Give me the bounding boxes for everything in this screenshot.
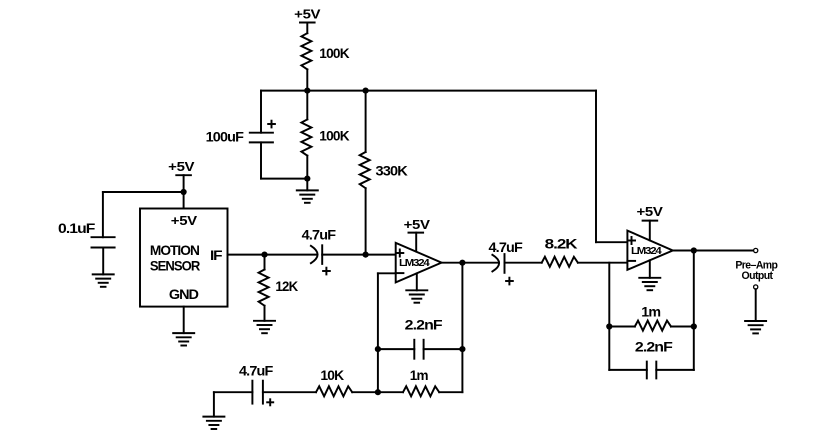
node junction rail/100K bbox=[304, 88, 310, 94]
node junction 1m left bbox=[606, 323, 612, 329]
node junction +5V/sensor/0.1uF bbox=[181, 189, 187, 195]
ground (op-amp2) bbox=[639, 260, 660, 290]
node junction 330K/op-amp1 input bbox=[363, 252, 369, 258]
node junction rail/330K bbox=[363, 88, 369, 94]
ground (output terminal) bbox=[745, 321, 766, 333]
svg-text:MOTION: MOTION bbox=[150, 242, 200, 258]
ground (below 100K) bbox=[297, 179, 318, 203]
wire op-amp1 - input feedback bbox=[378, 273, 396, 392]
motion sensor box U1 bbox=[140, 209, 228, 307]
svg-text:100K: 100K bbox=[319, 128, 349, 144]
op-amp U2B LM324 bbox=[627, 231, 672, 270]
node junction 100uF/100K/ground bbox=[304, 176, 310, 182]
wire top rail bbox=[261, 90, 596, 92]
svg-text:4.7uF: 4.7uF bbox=[239, 363, 274, 379]
+5V supply (op-amp2) bbox=[637, 204, 664, 240]
svg-text:4.7uF: 4.7uF bbox=[302, 226, 337, 242]
wire op-amp1 output bbox=[442, 262, 500, 264]
svg-text:Output: Output bbox=[742, 270, 774, 282]
wire C3 to op-amp1 + input bbox=[322, 254, 396, 256]
svg-text:8.2K: 8.2K bbox=[545, 236, 578, 252]
node junction op-amp1 output bbox=[459, 260, 465, 266]
resistor 1m R8 (feedback op-amp2) bbox=[609, 304, 694, 331]
svg-text:0.1uF: 0.1uF bbox=[58, 220, 96, 236]
svg-text:GND: GND bbox=[169, 286, 199, 302]
svg-text:100uF: 100uF bbox=[206, 129, 245, 145]
ground (below 12K) bbox=[254, 321, 275, 333]
terminal ground reference bbox=[754, 285, 758, 321]
capacitor C3 4.7uF (coupling) bbox=[302, 226, 337, 274]
svg-text:+5V: +5V bbox=[637, 204, 664, 219]
capacitor C4 2.2nF (feedback op-amp1) bbox=[378, 317, 463, 359]
resistor 100K (top) R1 bbox=[301, 33, 349, 90]
svg-text:IF: IF bbox=[210, 247, 223, 263]
resistor 1m R5 (feedback op-amp1) bbox=[378, 367, 463, 396]
capacitor C6 4.7uF (interstage) bbox=[489, 239, 524, 284]
terminal Pre-Amp Output bbox=[735, 248, 778, 282]
node junction 2.2nF right bbox=[459, 346, 465, 352]
svg-text:1m: 1m bbox=[641, 304, 660, 320]
svg-text:+5V: +5V bbox=[404, 217, 431, 232]
svg-text:10K: 10K bbox=[320, 367, 344, 383]
wire output junction down bbox=[461, 263, 463, 393]
wire op-amp2 - input down bbox=[608, 263, 610, 327]
svg-text:1m: 1m bbox=[410, 367, 428, 383]
svg-text:330K: 330K bbox=[376, 163, 408, 179]
ground (below C5) bbox=[203, 417, 224, 429]
svg-text:+5V: +5V bbox=[168, 159, 195, 174]
svg-text:4.7uF: 4.7uF bbox=[489, 239, 524, 255]
svg-text:LM324: LM324 bbox=[399, 257, 430, 269]
capacitor C5 4.7uF (bottom) bbox=[239, 363, 274, 406]
wire op-amp2 output bbox=[673, 251, 753, 327]
ground (below 0.1uF) bbox=[93, 248, 114, 287]
capacitor C1 100uF bbox=[206, 121, 275, 145]
wire junction left to 0.1uF bbox=[103, 192, 184, 237]
resistor 330K R3 bbox=[360, 91, 408, 255]
wire C5 to ground bbox=[214, 392, 253, 416]
capacitor C7 2.2nF (feedback op-amp2) bbox=[609, 327, 694, 379]
+5V supply (op-amp1) bbox=[404, 217, 431, 251]
wire rail left down to 100uF bbox=[260, 91, 262, 133]
ground (sensor GND) bbox=[173, 333, 194, 345]
node junction 2.2nF left bbox=[375, 346, 381, 352]
resistor 100K (lower bias) R2 bbox=[301, 91, 349, 179]
node junction op-amp2 output bbox=[691, 247, 697, 253]
capacitor C2 0.1uF bbox=[58, 220, 115, 248]
node junction IF/12K bbox=[261, 252, 267, 258]
svg-text:100K: 100K bbox=[319, 45, 349, 61]
+5V supply (top) bbox=[294, 6, 321, 33]
svg-text:2.2nF: 2.2nF bbox=[405, 317, 443, 333]
node junction 1m/10K bbox=[375, 389, 381, 395]
wire IF to op-amp input bbox=[228, 254, 318, 256]
resistor 10K R6 bbox=[263, 367, 378, 396]
wire 100uF bottom to ground junction bbox=[261, 142, 307, 178]
wire rail right down to op-amp2 + input bbox=[596, 91, 627, 243]
ground (op-amp1) bbox=[406, 273, 427, 302]
svg-text:+5V: +5V bbox=[171, 213, 198, 228]
wire junction to box top bbox=[183, 192, 185, 209]
+5V supply (sensor) bbox=[168, 159, 195, 192]
wire box bottom to ground bbox=[183, 307, 185, 334]
node junction 1m right bbox=[691, 323, 697, 329]
resistor 8.2K R7 bbox=[505, 236, 628, 267]
resistor 12K R4 bbox=[259, 255, 298, 321]
svg-text:SENSOR: SENSOR bbox=[150, 257, 200, 273]
svg-text:LM324: LM324 bbox=[631, 245, 662, 257]
svg-text:12K: 12K bbox=[275, 278, 298, 294]
op-amp U2A LM324 bbox=[396, 243, 442, 283]
svg-text:2.2nF: 2.2nF bbox=[635, 338, 673, 354]
svg-text:+5V: +5V bbox=[294, 6, 321, 21]
